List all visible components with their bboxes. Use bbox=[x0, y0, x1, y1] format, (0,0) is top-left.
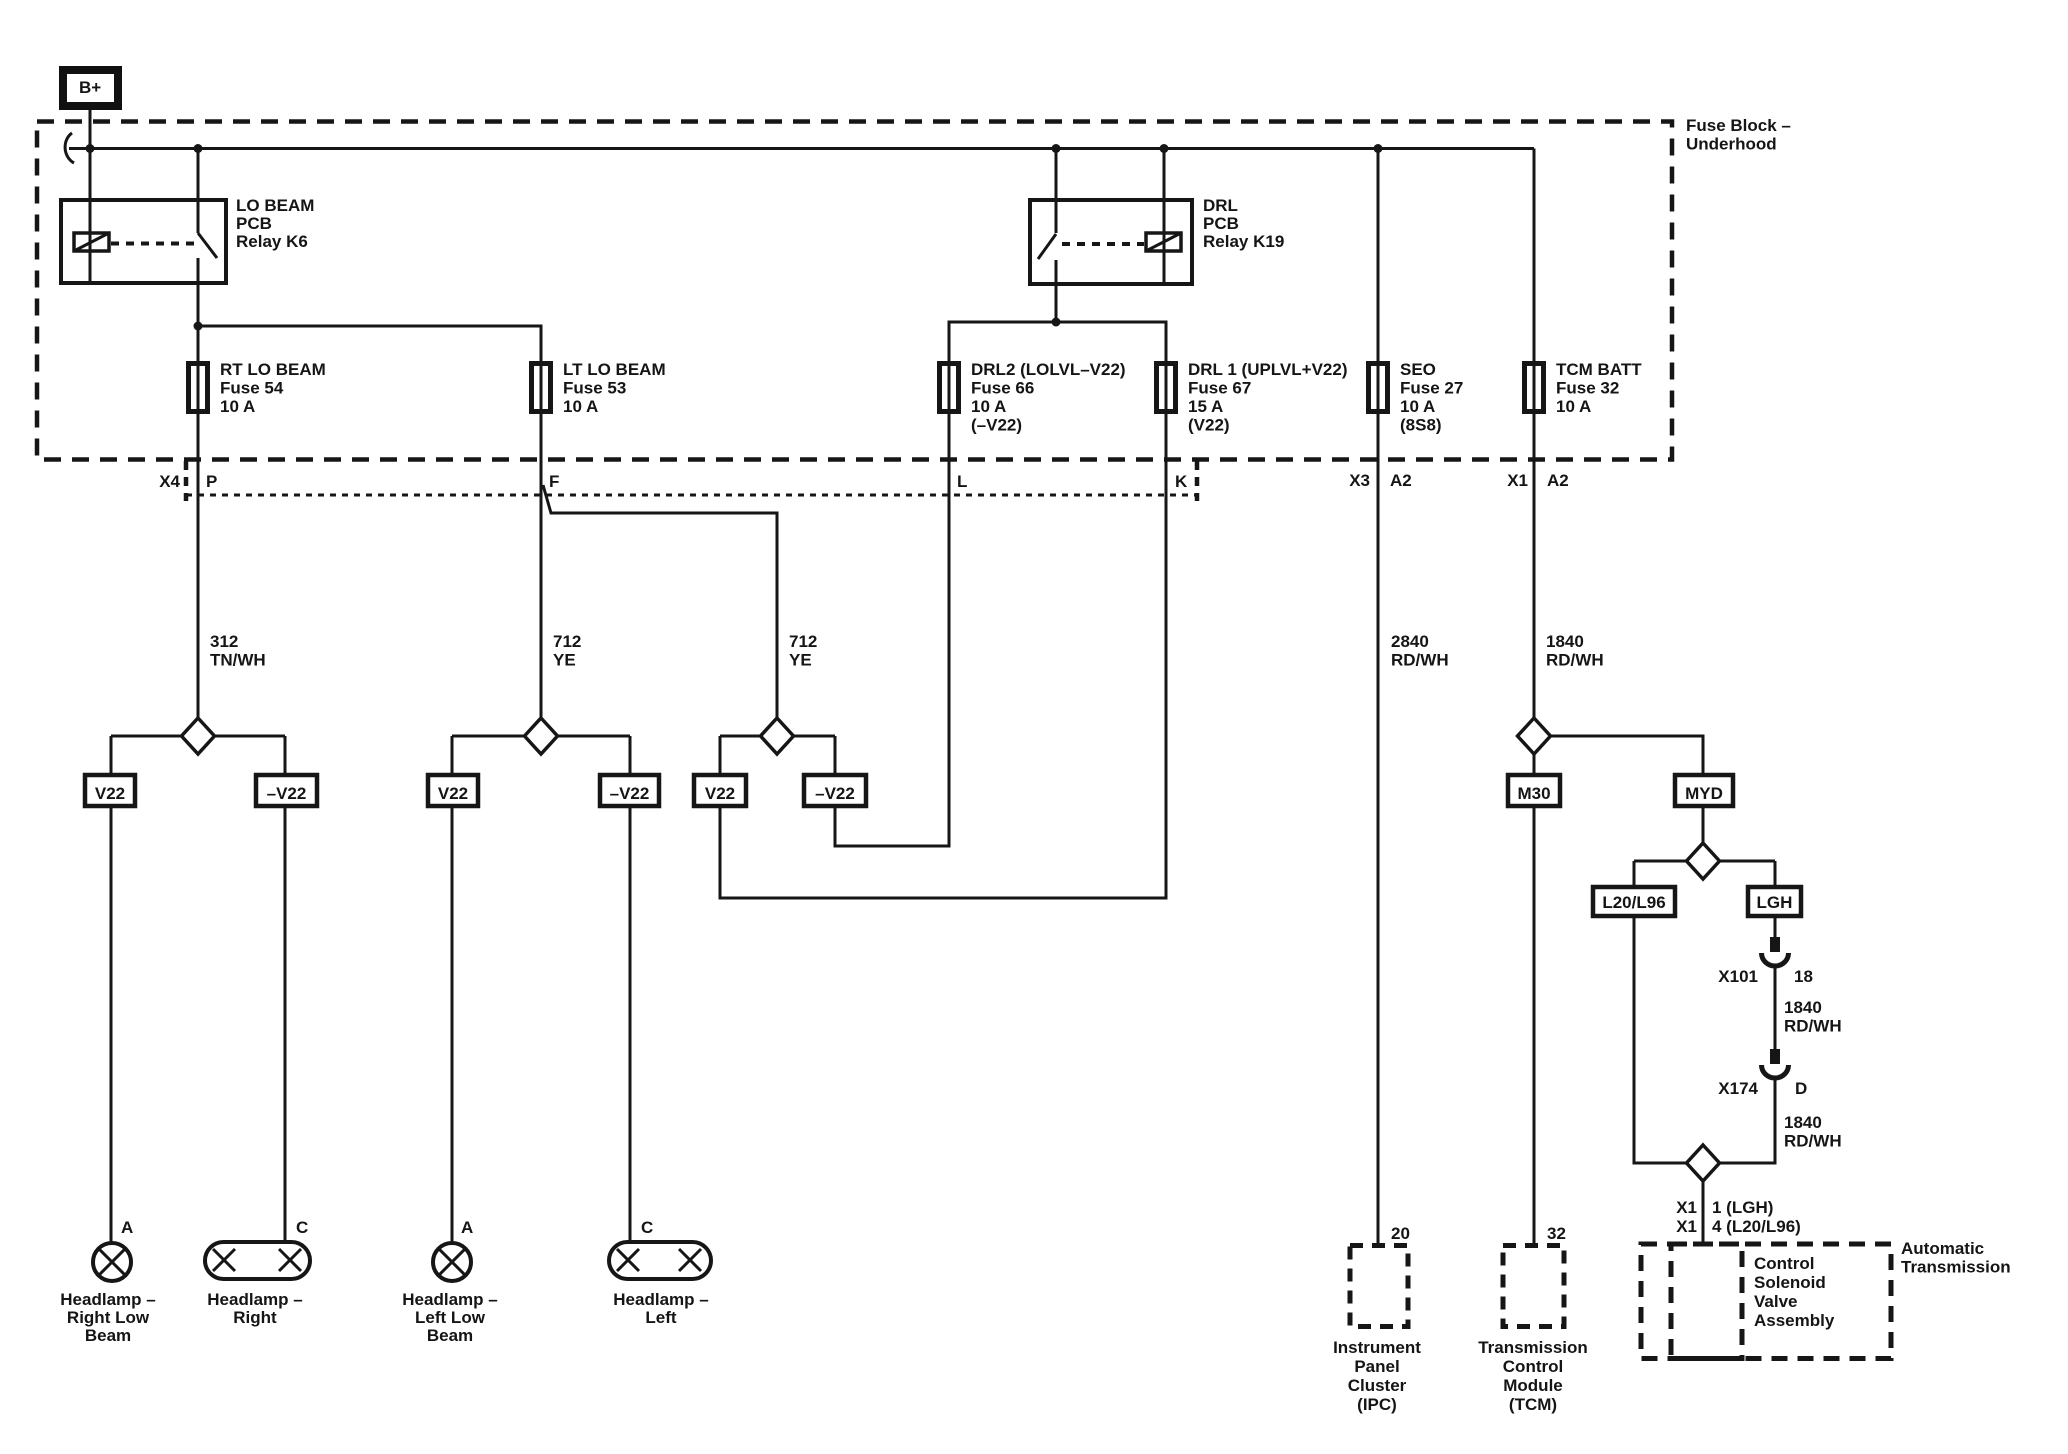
svg-text:RD/WH: RD/WH bbox=[1784, 1017, 1842, 1036]
svg-text:X1: X1 bbox=[1676, 1198, 1697, 1217]
connector tag -V22 (S1) bbox=[256, 775, 317, 806]
svg-text:Headlamp –: Headlamp – bbox=[60, 1290, 155, 1309]
connector tag -V22 (S3) bbox=[804, 775, 866, 806]
svg-text:Control: Control bbox=[1503, 1357, 1563, 1376]
svg-text:10 A: 10 A bbox=[971, 397, 1006, 416]
wire 2840 RD/WH SEO fuse to IPC bbox=[1377, 414, 1380, 1246]
svg-text:RD/WH: RD/WH bbox=[1391, 651, 1449, 670]
wire X101 to X174 segment bbox=[1774, 966, 1777, 1050]
svg-text:SEO: SEO bbox=[1400, 360, 1436, 379]
fuse 27 bbox=[1369, 364, 1388, 412]
wire 1840 RD/WH TCM fuse to splice diamond S4 bbox=[1533, 414, 1536, 736]
svg-text:B+: B+ bbox=[79, 78, 101, 97]
inline connector X101 pin bbox=[1770, 937, 1780, 952]
svg-text:Beam: Beam bbox=[85, 1326, 131, 1345]
relay K6 dashed link bbox=[111, 242, 194, 246]
wire 712 YE branch jog F to third branch bbox=[543, 485, 777, 736]
svg-text:A2: A2 bbox=[1547, 471, 1569, 490]
svg-text:X3: X3 bbox=[1349, 471, 1370, 490]
fuse 53 bbox=[532, 364, 551, 412]
svg-text:Module: Module bbox=[1503, 1376, 1563, 1395]
svg-text:2840: 2840 bbox=[1391, 632, 1429, 651]
wire fuse 67 K drop bbox=[720, 414, 1166, 898]
svg-text:P: P bbox=[206, 472, 217, 491]
connector tag V22 (S2) bbox=[428, 775, 478, 806]
wire main bus horizontal bbox=[69, 147, 1534, 150]
wire 312 TN/WH fuse 54 to splice diamond S1 bbox=[197, 414, 200, 736]
fuse 32 bbox=[1525, 364, 1544, 412]
wire LGH drop to X101 bbox=[1774, 916, 1777, 938]
svg-text:Transmission: Transmission bbox=[1478, 1338, 1588, 1357]
junction K19 switch drop on bus bbox=[1052, 144, 1061, 153]
svg-text:(IPC): (IPC) bbox=[1357, 1395, 1397, 1414]
fuse 67 bbox=[1157, 364, 1176, 412]
wire B+ feed vertical bbox=[89, 110, 92, 283]
inline connector X174 pin bbox=[1770, 1049, 1780, 1064]
wire headlamp left drop bbox=[629, 806, 632, 1242]
connector X4 left separator bbox=[184, 461, 189, 501]
connector X4 strip dotted bottom bbox=[186, 494, 1197, 497]
inline connector X174 socket bbox=[1762, 1065, 1789, 1078]
wire S2 left leg to V22 bbox=[451, 736, 454, 775]
lamp headlamp left low beam bbox=[433, 1243, 471, 1281]
svg-text:Beam: Beam bbox=[427, 1326, 473, 1345]
connector tag MYD bbox=[1675, 775, 1733, 806]
splice diamond S4 bbox=[1518, 718, 1551, 754]
svg-text:Fuse 54: Fuse 54 bbox=[220, 379, 284, 398]
svg-text:RD/WH: RD/WH bbox=[1784, 1132, 1842, 1151]
svg-text:–V22: –V22 bbox=[610, 784, 650, 803]
junction B+ feed on bus bbox=[86, 144, 95, 153]
svg-text:C: C bbox=[296, 1218, 308, 1237]
splice diamond S6 bbox=[1687, 1145, 1720, 1181]
wire S1 left leg to V22 bbox=[110, 736, 113, 775]
connector tag L20/L96 bbox=[1593, 887, 1675, 916]
svg-text:Valve: Valve bbox=[1754, 1292, 1798, 1311]
relay K19 box bbox=[1030, 200, 1192, 284]
svg-text:Fuse Block –: Fuse Block – bbox=[1686, 116, 1791, 135]
svg-text:Fuse 53: Fuse 53 bbox=[563, 379, 626, 398]
lamp headlamp right low beam bbox=[93, 1243, 131, 1281]
wire S6 to control solenoid valve assembly bbox=[1702, 1182, 1705, 1246]
svg-text:X101: X101 bbox=[1718, 967, 1758, 986]
wire S1 right leg to -V22 bbox=[284, 736, 287, 775]
svg-text:Solenoid: Solenoid bbox=[1754, 1273, 1826, 1292]
svg-text:–V22: –V22 bbox=[267, 784, 307, 803]
splice diamond S3 bbox=[761, 718, 794, 754]
svg-text:32: 32 bbox=[1547, 1224, 1566, 1243]
wire DRL relay switch drop from bus bbox=[1055, 149, 1058, 234]
wire splice bar to fuse 66 and fuse 67 bbox=[949, 322, 1166, 414]
svg-text:20: 20 bbox=[1391, 1224, 1410, 1243]
svg-text:10 A: 10 A bbox=[1556, 397, 1591, 416]
svg-text:A: A bbox=[461, 1218, 473, 1237]
svg-text:Control: Control bbox=[1754, 1254, 1814, 1273]
svg-text:X4: X4 bbox=[159, 472, 180, 491]
svg-text:Fuse 27: Fuse 27 bbox=[1400, 379, 1463, 398]
svg-text:Headlamp –: Headlamp – bbox=[207, 1290, 302, 1309]
fusible-link hook at bus start bbox=[65, 133, 74, 163]
svg-text:C: C bbox=[641, 1218, 653, 1237]
svg-text:DRL: DRL bbox=[1203, 196, 1238, 215]
svg-text:RT LO BEAM: RT LO BEAM bbox=[220, 360, 326, 379]
B+ battery terminal box bbox=[63, 70, 118, 106]
svg-text:D: D bbox=[1795, 1079, 1807, 1098]
svg-text:TCM BATT: TCM BATT bbox=[1556, 360, 1642, 379]
svg-text:YE: YE bbox=[553, 651, 576, 670]
splice diamond S2 bbox=[525, 718, 558, 754]
splice diamond S5 bbox=[1687, 843, 1720, 879]
wire fuse 66 L drop bbox=[835, 414, 949, 846]
automatic transmission boundary bbox=[1641, 1244, 1891, 1359]
relay K19 dashed link bbox=[1062, 242, 1144, 246]
relay K19 switch blade bbox=[1038, 234, 1056, 259]
wire TCM fuse drop from bus corner bbox=[1533, 149, 1536, 415]
svg-text:V22: V22 bbox=[705, 784, 735, 803]
svg-text:312: 312 bbox=[210, 632, 238, 651]
splice diamond S1 bbox=[182, 718, 215, 754]
svg-text:1 (LGH): 1 (LGH) bbox=[1712, 1198, 1773, 1217]
svg-text:Right Low: Right Low bbox=[67, 1308, 150, 1327]
svg-text:1840: 1840 bbox=[1784, 998, 1822, 1017]
connector tag V22 (S3) bbox=[694, 775, 746, 806]
svg-text:L: L bbox=[957, 472, 967, 491]
inline connector X101 socket bbox=[1762, 953, 1789, 966]
svg-text:(TCM): (TCM) bbox=[1509, 1395, 1557, 1414]
lamp headlamp right (dual) bbox=[205, 1242, 310, 1279]
wire headlamp right drop bbox=[284, 806, 287, 1242]
svg-text:YE: YE bbox=[789, 651, 812, 670]
wire S3 left leg to V22 bbox=[719, 736, 722, 775]
wire headlamp right low beam drop bbox=[110, 806, 113, 1243]
svg-text:15 A: 15 A bbox=[1188, 397, 1223, 416]
wire splice S1 bar bbox=[111, 735, 285, 738]
wire S5 right leg to LGH bbox=[1774, 861, 1777, 886]
wire headlamp left low beam drop bbox=[451, 806, 454, 1243]
svg-text:10 A: 10 A bbox=[1400, 397, 1435, 416]
svg-text:DRL2 (LOLVL–V22): DRL2 (LOLVL–V22) bbox=[971, 360, 1126, 379]
svg-text:Assembly: Assembly bbox=[1754, 1311, 1835, 1330]
wire L20/L96 drop to splice S6 bbox=[1634, 916, 1703, 1163]
wire SEO fuse drop from bus bbox=[1377, 149, 1380, 415]
junction K19 output to fuses 66/67 bbox=[1052, 318, 1061, 327]
control solenoid valve assembly inner box bbox=[1671, 1244, 1742, 1359]
junction K6 switch drop on bus bbox=[194, 144, 203, 153]
svg-text:Left Low: Left Low bbox=[415, 1308, 486, 1327]
svg-text:M30: M30 bbox=[1517, 784, 1550, 803]
svg-text:Panel: Panel bbox=[1354, 1357, 1399, 1376]
svg-text:1840: 1840 bbox=[1784, 1113, 1822, 1132]
junction K6 output to fuses 54/53 bbox=[194, 322, 203, 331]
wire X174 to splice S6 bbox=[1703, 1078, 1775, 1163]
wire branch to fuse 53 bbox=[198, 326, 541, 414]
svg-text:LT LO BEAM: LT LO BEAM bbox=[563, 360, 666, 379]
fuse block underhood dashed boundary bbox=[37, 122, 1672, 460]
wire splice S2 bar bbox=[452, 735, 630, 738]
svg-text:Fuse 32: Fuse 32 bbox=[1556, 379, 1619, 398]
svg-text:Headlamp –: Headlamp – bbox=[402, 1290, 497, 1309]
svg-text:Automatic: Automatic bbox=[1901, 1239, 1984, 1258]
svg-text:4 (L20/L96): 4 (L20/L96) bbox=[1712, 1217, 1801, 1236]
svg-text:Relay K6: Relay K6 bbox=[236, 232, 308, 251]
svg-text:PCB: PCB bbox=[236, 214, 272, 233]
lamp headlamp left (dual) bbox=[609, 1242, 711, 1279]
svg-text:Underhood: Underhood bbox=[1686, 135, 1777, 154]
svg-text:Left: Left bbox=[645, 1308, 677, 1327]
wire S4 bottom leg to M30 bbox=[1533, 736, 1536, 775]
wire splice S4 bar to MYD bbox=[1534, 736, 1703, 775]
instrument panel cluster box bbox=[1350, 1246, 1408, 1327]
wire MYD to splice diamond S5 bbox=[1702, 806, 1705, 845]
svg-text:V22: V22 bbox=[95, 784, 125, 803]
svg-text:Right: Right bbox=[233, 1308, 277, 1327]
svg-text:712: 712 bbox=[789, 632, 817, 651]
svg-text:10 A: 10 A bbox=[563, 397, 598, 416]
svg-text:PCB: PCB bbox=[1203, 214, 1239, 233]
relay K6 switch blade bbox=[198, 233, 217, 258]
fuse 66 bbox=[940, 364, 959, 412]
wire S5 left leg to L20/L96 bbox=[1633, 861, 1636, 886]
junction SEO fuse drop on bus bbox=[1374, 144, 1383, 153]
svg-text:Relay K19: Relay K19 bbox=[1203, 232, 1284, 251]
connector tag -V22 (S2) bbox=[600, 775, 659, 806]
fuse 54 bbox=[189, 364, 208, 412]
svg-text:L20/L96: L20/L96 bbox=[1602, 893, 1665, 912]
svg-text:Fuse 66: Fuse 66 bbox=[971, 379, 1034, 398]
svg-text:V22: V22 bbox=[438, 784, 468, 803]
connector tag V22 (S1) bbox=[85, 775, 135, 806]
svg-text:18: 18 bbox=[1794, 967, 1813, 986]
svg-text:10 A: 10 A bbox=[220, 397, 255, 416]
connector tag M30 bbox=[1508, 775, 1560, 806]
svg-text:LO BEAM: LO BEAM bbox=[236, 196, 314, 215]
svg-text:X1: X1 bbox=[1507, 471, 1528, 490]
transmission control module box bbox=[1503, 1246, 1564, 1327]
svg-text:(8S8): (8S8) bbox=[1400, 416, 1442, 435]
svg-text:Transmission: Transmission bbox=[1901, 1258, 2011, 1277]
wire DRL relay switch output to splice bbox=[1055, 260, 1058, 322]
svg-text:LGH: LGH bbox=[1757, 893, 1793, 912]
wire S3 right leg to -V22 bbox=[834, 736, 837, 775]
wire splice S3 bar bbox=[720, 735, 835, 738]
junction K19 coil drop on bus bbox=[1160, 144, 1169, 153]
svg-text:1840: 1840 bbox=[1546, 632, 1584, 651]
wire 712 YE fuse 53 to splice diamond S2 bbox=[540, 414, 543, 736]
svg-text:RD/WH: RD/WH bbox=[1546, 651, 1604, 670]
svg-text:TN/WH: TN/WH bbox=[210, 651, 266, 670]
svg-text:Instrument: Instrument bbox=[1333, 1338, 1421, 1357]
relay K6 box bbox=[61, 200, 226, 283]
svg-text:(–V22): (–V22) bbox=[971, 416, 1022, 435]
svg-text:A: A bbox=[121, 1218, 133, 1237]
svg-text:F: F bbox=[549, 472, 559, 491]
svg-text:X1: X1 bbox=[1676, 1217, 1697, 1236]
svg-text:DRL 1 (UPLVL+V22): DRL 1 (UPLVL+V22) bbox=[1188, 360, 1348, 379]
svg-text:Cluster: Cluster bbox=[1348, 1376, 1407, 1395]
relay K6 coil bbox=[74, 233, 109, 251]
wire M30 to TCM module bbox=[1533, 806, 1536, 1246]
connector tag LGH bbox=[1748, 887, 1801, 916]
svg-text:X174: X174 bbox=[1718, 1079, 1758, 1098]
svg-text:K: K bbox=[1175, 472, 1188, 491]
svg-text:Fuse 67: Fuse 67 bbox=[1188, 379, 1251, 398]
connector X4 right separator bbox=[1195, 461, 1200, 501]
wire relay K6 switch output to junction bbox=[197, 258, 200, 414]
svg-text:MYD: MYD bbox=[1685, 784, 1723, 803]
svg-text:Headlamp –: Headlamp – bbox=[613, 1290, 708, 1309]
svg-text:(V22): (V22) bbox=[1188, 416, 1230, 435]
svg-text:A2: A2 bbox=[1390, 471, 1412, 490]
wire splice S5 bar bbox=[1634, 860, 1775, 863]
wire S2 right leg to -V22 bbox=[629, 736, 632, 775]
wire DRL relay coil drop from bus bbox=[1163, 149, 1166, 285]
relay K19 coil bbox=[1146, 233, 1181, 251]
svg-text:–V22: –V22 bbox=[815, 784, 855, 803]
svg-text:712: 712 bbox=[553, 632, 581, 651]
wire relay K6 switch drop from bus bbox=[197, 149, 200, 234]
